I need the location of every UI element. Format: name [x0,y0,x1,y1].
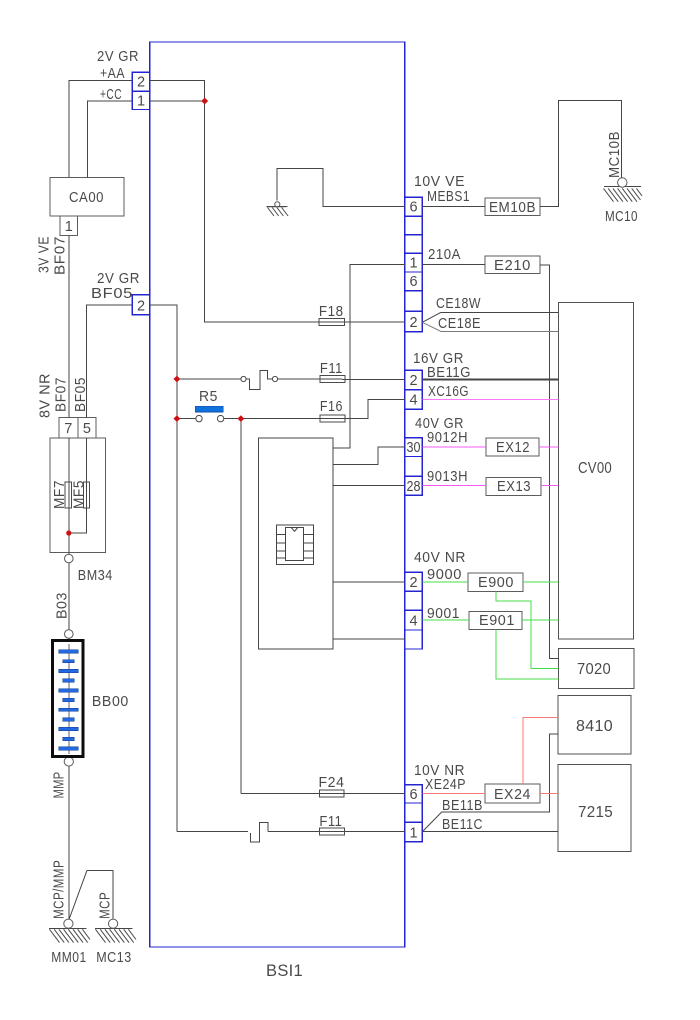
svg-text:CE18E: CE18E [438,316,481,332]
svg-text:MMP: MMP [52,771,68,798]
svg-text:MM01: MM01 [51,950,86,966]
svg-text:XE24P: XE24P [425,777,466,793]
svg-text:MC10: MC10 [605,209,638,225]
svg-text:BSI1: BSI1 [266,961,303,980]
svg-text:1: 1 [137,94,145,110]
svg-text:BM34: BM34 [78,568,113,584]
svg-text:F11: F11 [319,814,342,830]
svg-text:BE11C: BE11C [442,817,483,833]
svg-text:2: 2 [409,575,417,591]
svg-text:EM10B: EM10B [489,200,536,216]
svg-text:R5: R5 [199,389,218,405]
svg-text:7: 7 [64,421,72,437]
svg-text:MF7: MF7 [52,480,68,509]
svg-text:B03: B03 [55,592,71,619]
svg-text:1: 1 [409,256,417,272]
svg-text:BB00: BB00 [92,694,129,710]
svg-text:3V VE: 3V VE [37,236,53,273]
svg-text:XC16G: XC16G [428,384,469,400]
svg-text:+AA: +AA [100,66,125,82]
svg-text:E900: E900 [478,575,514,591]
svg-text:2V GR: 2V GR [97,49,139,65]
svg-text:BF05: BF05 [91,286,133,302]
svg-text:EX24: EX24 [494,787,531,803]
svg-text:2: 2 [137,299,145,315]
svg-text:210A: 210A [428,247,461,263]
svg-text:CA00: CA00 [69,190,104,206]
svg-text:2: 2 [409,315,417,331]
svg-text:4: 4 [409,393,417,409]
svg-text:6: 6 [409,274,417,290]
svg-text:MC10B: MC10B [607,131,623,178]
svg-text:CE18W: CE18W [436,296,481,312]
svg-text:MF5: MF5 [72,480,88,509]
svg-text:10V VE: 10V VE [414,174,465,190]
svg-text:MCP/MMP: MCP/MMP [52,860,68,919]
svg-text:F16: F16 [320,399,343,415]
svg-text:7020: 7020 [577,661,611,678]
svg-text:+CC: +CC [100,87,122,103]
svg-text:4: 4 [409,614,417,630]
svg-text:6: 6 [409,787,417,803]
svg-text:F24: F24 [319,775,345,791]
svg-text:MEBS1: MEBS1 [427,189,470,205]
svg-text:9012H: 9012H [427,430,468,446]
svg-text:BF07: BF07 [53,236,69,275]
svg-text:28: 28 [407,479,421,495]
svg-text:2: 2 [137,75,145,91]
svg-text:9013H: 9013H [427,469,468,485]
svg-text:BF07: BF07 [54,377,70,412]
svg-text:1: 1 [409,826,417,842]
svg-text:CV00: CV00 [578,460,612,477]
svg-text:EX12: EX12 [496,440,530,456]
svg-text:F11: F11 [320,361,343,377]
svg-text:8410: 8410 [576,718,613,735]
svg-text:E210: E210 [494,258,531,274]
svg-text:BF05: BF05 [73,377,89,412]
svg-text:5: 5 [83,421,91,437]
svg-text:2: 2 [409,373,417,389]
svg-text:MC13: MC13 [96,950,132,966]
svg-text:30: 30 [407,440,421,456]
svg-text:40V NR: 40V NR [414,550,466,566]
svg-text:1: 1 [65,219,73,235]
svg-text:BE11G: BE11G [427,365,471,381]
svg-text:7215: 7215 [578,804,613,821]
svg-text:9000: 9000 [427,567,462,583]
svg-text:MCP: MCP [98,892,114,919]
svg-text:BE11B: BE11B [442,798,483,814]
svg-text:6: 6 [409,200,417,216]
svg-text:E901: E901 [479,613,515,629]
svg-text:9001: 9001 [427,606,460,622]
svg-text:F18: F18 [319,304,344,320]
svg-text:8V NR: 8V NR [38,373,54,418]
svg-text:EX13: EX13 [497,479,531,495]
svg-text:2V GR: 2V GR [97,271,140,287]
